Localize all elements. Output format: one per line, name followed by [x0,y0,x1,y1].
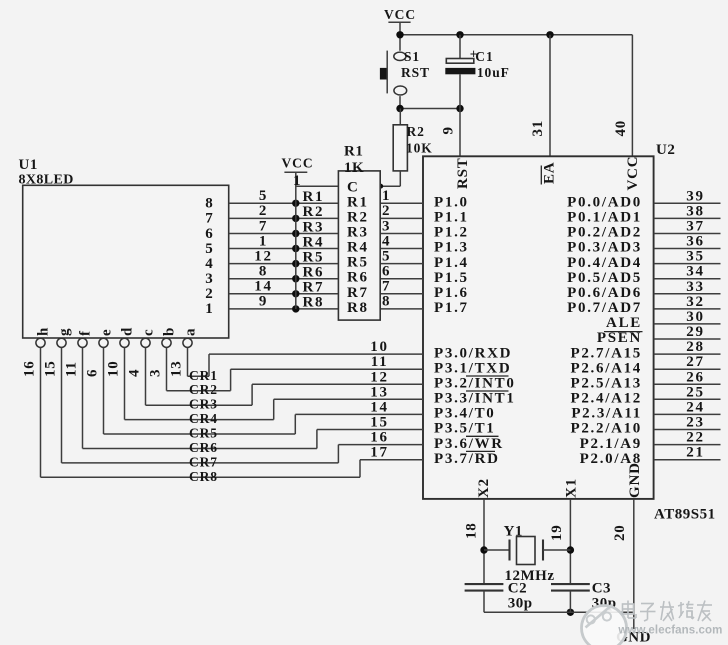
svg-text:C3: C3 [592,581,611,597]
svg-text:R6: R6 [303,265,325,281]
svg-text:P3.1/TXD: P3.1/TXD [434,360,511,376]
svg-text:R8: R8 [303,295,325,311]
svg-text:23: 23 [686,415,704,431]
svg-text:CR8: CR8 [189,469,218,484]
svg-text:R7: R7 [347,285,369,301]
svg-text:R1: R1 [303,189,325,205]
svg-text:h: h [36,327,52,336]
svg-text:b: b [162,327,178,336]
svg-text:15: 15 [43,360,59,377]
svg-text:P0.7/AD7: P0.7/AD7 [567,300,642,316]
svg-text:10uF: 10uF [477,65,510,80]
svg-text:31: 31 [530,120,546,137]
svg-text:P2.2/A10: P2.2/A10 [570,421,642,437]
svg-text:Y1: Y1 [504,524,523,540]
svg-text:g: g [57,328,73,336]
svg-text:P3.3/INT1: P3.3/INT1 [434,391,516,407]
svg-text:1K: 1K [344,160,364,176]
svg-text:C1: C1 [475,49,493,64]
svg-text:37: 37 [686,219,704,235]
svg-text:10K: 10K [406,141,433,156]
svg-text:8: 8 [205,196,214,212]
svg-text:22: 22 [686,430,704,446]
svg-text:5: 5 [259,188,268,204]
svg-text:EA: EA [542,162,558,184]
svg-text:VCC: VCC [625,156,641,191]
svg-text:R1: R1 [347,194,369,210]
svg-text:8X8LED: 8X8LED [19,173,74,188]
svg-text:21: 21 [686,445,704,461]
svg-text:X1: X1 [564,478,580,498]
svg-text:P0.1/AD1: P0.1/AD1 [567,210,642,226]
svg-text:34: 34 [686,264,704,280]
svg-text:U1: U1 [19,157,38,173]
svg-text:36: 36 [686,234,704,250]
svg-text:7: 7 [259,218,268,234]
svg-text:R5: R5 [303,249,325,265]
svg-text:25: 25 [686,384,704,400]
svg-text:14: 14 [254,279,272,295]
svg-text:CR6: CR6 [189,440,218,455]
svg-text:R2: R2 [347,209,369,225]
svg-text:AT89S51: AT89S51 [654,507,716,523]
svg-text:7: 7 [382,279,391,295]
svg-text:P3.6/WR: P3.6/WR [434,436,504,452]
svg-text:5: 5 [382,248,391,264]
svg-text:VCC: VCC [384,7,416,22]
svg-text:2: 2 [259,203,268,219]
svg-text:P2.5/A13: P2.5/A13 [570,376,642,392]
svg-text:R4: R4 [303,234,325,250]
svg-text:24: 24 [686,399,704,415]
svg-text:R3: R3 [303,219,325,235]
svg-text:30: 30 [686,309,704,325]
svg-text:R2: R2 [407,124,425,139]
svg-text:17: 17 [370,445,388,461]
svg-text:4: 4 [382,233,391,249]
svg-text:1: 1 [205,301,214,317]
svg-text:R1: R1 [344,144,363,160]
svg-text:10: 10 [106,360,122,377]
svg-text:7: 7 [205,211,214,227]
svg-text:P1.0: P1.0 [434,195,469,211]
svg-text:C2: C2 [508,581,527,597]
svg-text:9: 9 [259,294,268,310]
svg-text:8: 8 [382,294,391,310]
svg-text:P0.2/AD2: P0.2/AD2 [567,225,642,241]
svg-text:5: 5 [205,241,214,257]
svg-text:2: 2 [382,203,391,219]
svg-text:P1.1: P1.1 [434,210,469,226]
svg-text:1: 1 [382,188,391,204]
svg-text:32: 32 [686,294,704,310]
svg-text:P0.0/AD0: P0.0/AD0 [567,195,642,211]
svg-text:26: 26 [686,369,704,385]
svg-text:14: 14 [370,399,388,415]
svg-text:11: 11 [64,361,80,377]
svg-text:d: d [120,327,136,336]
svg-text:P3.2/INT0: P3.2/INT0 [434,376,516,392]
svg-text:P3.0/RXD: P3.0/RXD [434,345,512,361]
svg-text:P2.7/A15: P2.7/A15 [570,345,642,361]
svg-text:P0.5/AD5: P0.5/AD5 [567,270,642,286]
svg-text:10: 10 [370,339,388,355]
svg-text:a: a [183,328,199,336]
svg-text:40: 40 [613,120,629,137]
svg-text:20: 20 [612,524,628,541]
svg-text:9: 9 [440,126,456,134]
svg-text:13: 13 [370,384,388,400]
svg-text:PSEN: PSEN [597,330,642,346]
svg-text:11: 11 [371,354,389,370]
svg-text:GND: GND [627,462,643,498]
svg-text:R2: R2 [303,204,325,220]
svg-text:16: 16 [22,360,38,377]
svg-text:P0.6/AD6: P0.6/AD6 [567,285,642,301]
svg-text:www.elecfans.com: www.elecfans.com [617,625,722,637]
svg-text:29: 29 [686,324,704,340]
svg-text:S1: S1 [404,49,420,64]
svg-text:R7: R7 [303,280,325,296]
svg-text:R8: R8 [347,300,369,316]
svg-text:18: 18 [464,522,480,539]
svg-text:13: 13 [169,360,185,377]
svg-text:3: 3 [148,369,164,377]
svg-text:RST: RST [401,65,430,80]
svg-text:P1.2: P1.2 [434,225,469,241]
svg-text:P1.4: P1.4 [434,255,469,271]
svg-text:P1.7: P1.7 [434,300,469,316]
svg-text:P3.5/T1: P3.5/T1 [434,421,496,437]
svg-text:8: 8 [259,264,268,280]
svg-text:6: 6 [382,264,391,280]
svg-text:CR4: CR4 [189,411,218,426]
svg-text:c: c [141,329,157,336]
svg-text:P3.4/T0: P3.4/T0 [434,406,496,422]
svg-text:R5: R5 [347,255,369,271]
svg-text:P2.1/A9: P2.1/A9 [580,436,642,452]
svg-text:P1.3: P1.3 [434,240,469,256]
svg-text:CR7: CR7 [189,454,218,469]
svg-text:1: 1 [259,233,268,249]
svg-text:CR1: CR1 [189,368,218,383]
svg-text:38: 38 [686,203,704,219]
svg-text:RST: RST [455,157,471,189]
svg-text:P0.4/AD4: P0.4/AD4 [567,255,642,271]
svg-text:4: 4 [127,369,143,377]
svg-text:P2.4/A12: P2.4/A12 [570,391,642,407]
svg-text:P1.5: P1.5 [434,270,469,286]
svg-text:P3.7/RD: P3.7/RD [434,451,500,467]
svg-text:R4: R4 [347,240,369,256]
svg-text:12: 12 [254,248,272,264]
svg-text:CR2: CR2 [189,382,218,397]
svg-text:16: 16 [370,430,388,446]
svg-text:R6: R6 [347,270,369,286]
svg-text:3: 3 [205,271,214,287]
svg-text:R3: R3 [347,225,369,241]
svg-text:C: C [347,180,360,196]
svg-text:X2: X2 [476,478,492,498]
svg-text:U2: U2 [656,142,675,158]
svg-text:CR3: CR3 [189,397,218,412]
svg-text:30p: 30p [508,596,533,612]
svg-text:6: 6 [85,369,101,377]
svg-text:33: 33 [686,279,704,295]
svg-text:3: 3 [382,218,391,234]
svg-text:28: 28 [686,339,704,355]
svg-text:12: 12 [370,369,388,385]
svg-text:1: 1 [293,173,302,189]
svg-text:e: e [99,329,115,336]
svg-text:P1.6: P1.6 [434,285,469,301]
svg-text:P2.6/A14: P2.6/A14 [570,360,642,376]
svg-text:39: 39 [686,188,704,204]
svg-text:6: 6 [205,226,214,242]
svg-text:CR5: CR5 [189,426,218,441]
svg-text:27: 27 [686,354,704,370]
svg-text:19: 19 [549,524,565,541]
svg-text:2: 2 [205,286,214,302]
svg-text:P2.3/A11: P2.3/A11 [571,406,642,422]
svg-text:35: 35 [686,249,704,265]
svg-text:15: 15 [370,415,388,431]
svg-text:f: f [78,330,94,336]
svg-text:ALE: ALE [606,315,642,331]
svg-text:P0.3/AD3: P0.3/AD3 [567,240,642,256]
svg-text:4: 4 [205,256,214,272]
svg-text:VCC: VCC [282,156,314,171]
